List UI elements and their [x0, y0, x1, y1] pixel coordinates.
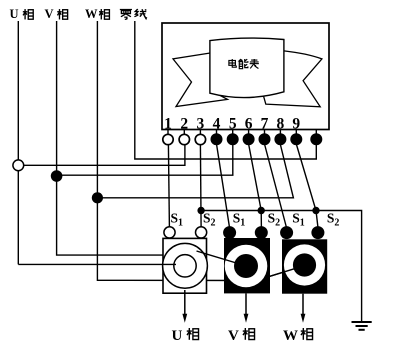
wire terminal 4 to CT2 S1 [217, 144, 230, 228]
wire W phase primary: vertical drop, horizontal, then slant up into CT3 window [97, 21, 305, 281]
terminal 9 [290, 133, 302, 145]
terminal numbers 1-9 [164, 115, 300, 132]
terminal 3 [195, 134, 205, 144]
load arrow V phase [244, 293, 249, 322]
junction dot bus / CT1 S2 [197, 207, 204, 214]
wire terminal 6 to CT2 S2 [249, 144, 262, 228]
CT1 terminal S2 [196, 227, 207, 238]
junction dot on W line [92, 192, 103, 203]
banner centre panel [210, 38, 284, 97]
terminal 1 [163, 134, 173, 144]
current transformer TA2 (V phase) body [223, 226, 270, 293]
terminal stubs to meter box [168, 130, 316, 135]
svg-text:3: 3 [197, 115, 205, 132]
load arrow W phase [301, 294, 306, 323]
terminal 2 [179, 134, 189, 144]
wire V voltage tap to terminal 5 [57, 144, 233, 175]
svg-text:S1: S1 [233, 210, 246, 228]
wire W voltage tap to terminal 8 [97, 145, 293, 198]
svg-text:5: 5 [229, 115, 237, 132]
node label U相 (top feeder) [10, 7, 34, 21]
node label V相 (top feeder) [45, 7, 68, 21]
svg-text:S2: S2 [268, 210, 281, 228]
wire terminal 7 to CT3 S1 [265, 144, 287, 228]
wire V phase primary: vertical drop then horizontal toward CT2 [57, 21, 163, 255]
svg-text:S1: S1 [171, 210, 184, 228]
svg-text:U: U [10, 7, 19, 21]
wire U phase primary: vertical drop then horizontal into CT1 window [17, 21, 19, 264]
svg-text:S2: S2 [327, 210, 340, 228]
label 电能表 (energy meter) [229, 59, 259, 69]
svg-text:8: 8 [277, 115, 285, 132]
junction dot on V line [51, 170, 63, 182]
svg-text:V: V [228, 328, 239, 344]
wire U primary through CT1 window [18, 263, 176, 265]
wire terminal 3 to CT1 S2 [199, 144, 202, 227]
svg-text:U: U [172, 328, 183, 344]
current transformer TA1 (U phase) body [163, 238, 208, 293]
svg-text:6: 6 [245, 115, 253, 132]
node label U相 (load) [172, 328, 199, 344]
banner right wing [263, 51, 322, 107]
svg-text:2: 2 [180, 115, 188, 132]
svg-text:S2: S2 [203, 210, 216, 228]
terminal 6 [243, 133, 255, 145]
junction dot bus / CT3 S2 [312, 207, 319, 214]
svg-text:4: 4 [213, 115, 221, 132]
wire V primary slant through CT2 window [197, 251, 244, 265]
terminal 4 [211, 133, 223, 145]
svg-text:W: W [283, 328, 298, 344]
svg-text:V: V [45, 7, 54, 21]
wire U voltage tap to terminal 2 [18, 144, 185, 165]
junction dot bus / CT2 S2 [258, 207, 265, 214]
node label W相 (top feeder) [85, 7, 109, 21]
svg-text:W: W [85, 7, 98, 21]
junction open circle on U line [13, 160, 24, 171]
svg-text:7: 7 [261, 115, 269, 132]
load arrow U phase [182, 290, 187, 323]
svg-text:S1: S1 [292, 210, 305, 228]
svg-text:1: 1 [164, 115, 172, 132]
ground [352, 322, 372, 330]
current transformer TA3 (W phase) body [280, 226, 327, 294]
wire neutral: vertical drop, horizontal right, up to terminal 10 [135, 21, 316, 159]
node label V相 (load) [228, 328, 255, 344]
banner left wing [173, 53, 228, 107]
terminal 7 [259, 133, 271, 145]
CT1 terminal S1 [164, 227, 175, 238]
wire W primary slant through CT3 window [267, 267, 301, 278]
node label W相 (load) [283, 328, 313, 344]
wire terminal 1 to CT1 S1 [168, 144, 169, 227]
wire terminal 9 to CT3 S2 [296, 144, 318, 227]
meter box U1 [162, 23, 329, 130]
terminal 8 [274, 133, 286, 145]
terminal 5 [227, 133, 239, 145]
svg-text:9: 9 [292, 115, 300, 132]
ground bus from S2 terminals to earth [201, 211, 362, 322]
node label 零线 (neutral) [120, 9, 147, 19]
terminal 10 (neutral) [310, 133, 322, 145]
